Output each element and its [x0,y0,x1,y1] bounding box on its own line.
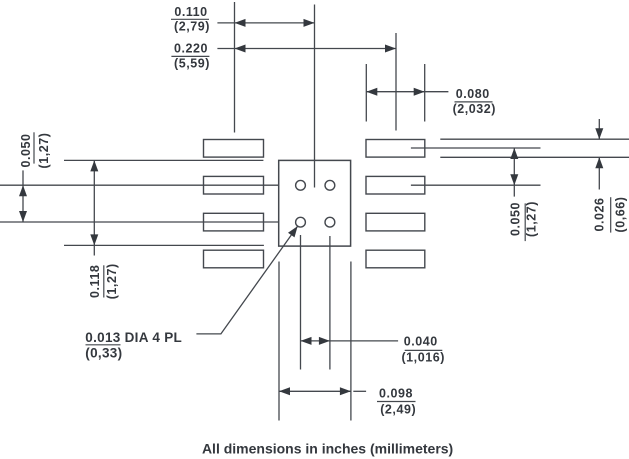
svg-text:0.040: 0.040 [404,334,438,348]
svg-text:(0,66): (0,66) [613,197,627,233]
svg-text:(1,27): (1,27) [37,133,51,169]
svg-text:All dimensions in inches (mill: All dimensions in inches (millimeters) [202,440,453,456]
svg-text:0.050: 0.050 [19,133,33,167]
svg-text:0.220: 0.220 [174,42,208,56]
svg-text:0.013 DIA 4 PL: 0.013 DIA 4 PL [85,330,182,345]
svg-text:(1,016): (1,016) [401,350,444,364]
svg-text:0.118: 0.118 [88,265,102,298]
svg-text:(5,59): (5,59) [174,56,210,70]
svg-text:(2,79): (2,79) [174,20,210,34]
svg-text:0.050: 0.050 [509,202,523,236]
svg-text:(1,27): (1,27) [105,263,119,299]
svg-text:(1,27): (1,27) [525,201,539,237]
svg-text:(0,33): (0,33) [85,345,122,360]
svg-text:(2,032): (2,032) [453,102,496,116]
svg-text:0.026: 0.026 [592,197,606,231]
svg-text:0.080: 0.080 [456,87,490,101]
svg-text:(2,49): (2,49) [380,402,416,416]
svg-text:0.110: 0.110 [174,5,207,19]
svg-text:0.098: 0.098 [379,387,413,401]
